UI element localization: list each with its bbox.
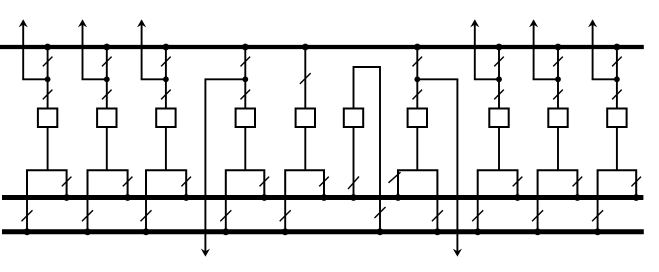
node tap on bus B2, bay 2 <box>124 194 131 201</box>
wire bay 1: bus B2 through to bus B3 <box>26 198 28 232</box>
disconnect switch DS8a <box>494 57 504 67</box>
disconnect switch DS4b <box>241 90 251 100</box>
disconnect switch DS7b <box>413 90 423 100</box>
node tap on bus B2, bay 8 <box>514 194 521 201</box>
node tap on bus B2, bay 4 <box>261 194 268 201</box>
feeder arrow F4 (load line, down arrow crossing buses) <box>201 79 210 256</box>
wire bay 7: bus B1 down to node N7 <box>416 47 418 79</box>
bus B3 (bottom busbar) <box>2 229 644 234</box>
wire jog feeder F9 to node N9 <box>533 78 558 80</box>
switch SW8 on transformer T8 right side <box>513 177 523 187</box>
circuit breaker CB4 (square) <box>236 109 255 128</box>
disconnect switch DS1c (between buses) <box>22 210 33 221</box>
node tap on bus B1, bay 8 <box>496 44 503 51</box>
feeder arrow F7 (load line, down arrow crossing buses) <box>453 79 462 256</box>
disconnect switch DS4a <box>241 57 251 67</box>
circuit breaker CB6 (square) <box>344 109 363 128</box>
switch SW9 on transformer T9 right side <box>573 177 583 187</box>
wire bay 9: node N9 down to breaker <box>557 79 559 108</box>
disconnect switch DS2b <box>102 90 112 100</box>
disconnect switch DS3b <box>161 90 171 100</box>
wire bay 8: breaker CB8 to transformer T8 <box>498 127 500 170</box>
disconnect switch DS3a <box>161 57 171 67</box>
disconnect switch DS2c (between buses) <box>82 210 93 221</box>
wire bay 2: node N2 down to breaker <box>106 79 108 108</box>
node tap on bus B1, bay 5 <box>302 44 309 51</box>
circuit breaker CB8 (square) <box>489 109 508 128</box>
node tap on bus B3, bay 10 <box>594 228 601 235</box>
wire bay 4: node N4 down to breaker <box>244 79 246 108</box>
wire jog node N4 to feeder F4 <box>205 78 247 80</box>
transformer T5 (rectangle onto bus B2) <box>285 170 324 197</box>
wire bay 9: bus B1 down to node N9 <box>557 47 559 79</box>
transformer T10 (rectangle onto bus B2) <box>598 170 637 197</box>
node tap on bus B1, bay 2 <box>103 44 110 51</box>
disconnect switch DS10a <box>612 57 622 67</box>
node tap on bus B1, bay 3 <box>163 44 170 51</box>
wire bay 2: breaker CB2 to transformer T2 <box>106 127 108 170</box>
wire bay 3: node N3 down to breaker <box>165 79 167 108</box>
wire bay 7: breaker CB7 to transformer T7 <box>416 127 418 170</box>
disconnect switch DS9b <box>553 90 563 100</box>
circuit breaker CB7 (square) <box>408 109 427 128</box>
wire bay 3: bus B1 down to node N3 <box>165 47 167 79</box>
transformer T1 (rectangle onto bus B2) <box>27 170 67 197</box>
circuit breaker CB1 (square) <box>38 109 57 128</box>
wire tie bay 6: breaker CB6 up and over to right leg <box>354 67 381 232</box>
disconnect switch DS5a <box>300 73 311 84</box>
node tap on bus B2, bay 7 <box>395 194 402 201</box>
node tap on bus B3, bay 5 <box>282 228 289 235</box>
transformer T2 (rectangle onto bus B2) <box>88 170 128 197</box>
node N9 (junction dot) <box>555 76 561 82</box>
node tap on bus B3, bay 2 <box>84 228 91 235</box>
disconnect switch DS2a <box>102 57 112 67</box>
wire bay 2: bus B2 through to bus B3 <box>87 198 89 232</box>
feeder arrow F2 (source line, up arrow) <box>78 19 87 79</box>
bus B2 (middle busbar) <box>2 195 643 200</box>
disconnect switch DS1a <box>43 57 53 67</box>
node N8 (junction dot) <box>496 76 502 82</box>
node tap on bus B2, tie bay 6 <box>350 194 357 201</box>
wire bay 1: breaker CB1 to transformer T1 <box>47 127 49 170</box>
feeder arrow F3 (source line, up arrow) <box>137 19 146 79</box>
circuit breaker CB3 (square) <box>156 109 175 128</box>
wire bay 10: node N10 down to breaker <box>616 79 618 108</box>
disconnect switch DS8c (between buses) <box>472 210 483 221</box>
node tap on bus B1, bay 7 <box>414 44 421 51</box>
wire bay 1: bus B1 down to node N1 <box>47 47 49 79</box>
wire bay 5: bus B1 down to breaker <box>304 47 306 109</box>
wire jog feeder F1 to node N1 <box>22 78 47 80</box>
circuit breaker CB5 (square) <box>296 109 315 128</box>
node tap on bus B1, bay 9 <box>555 44 562 51</box>
switch SW5 on transformer T5 right side <box>319 177 329 187</box>
node tap on bus B1, bay 4 <box>242 44 249 51</box>
disconnect switch DS7a <box>413 57 423 67</box>
disconnect switch DS7c (between buses) <box>432 210 443 221</box>
disconnect switch DS1b <box>43 90 53 100</box>
disconnect switch DS9a <box>553 57 563 67</box>
wire bay 9: bus B2 through to bus B3 <box>537 198 539 232</box>
wire bay 7: node N7 down to breaker <box>416 79 418 108</box>
node N4 (junction dot) <box>242 76 248 82</box>
circuit breaker CB9 (square) <box>548 109 567 128</box>
wire bay 8: bus B2 through to bus B3 <box>477 198 479 232</box>
wire bay 4: bus B1 down to node N4 <box>244 47 246 79</box>
wire bay 10: bus B1 down to node N10 <box>616 47 618 79</box>
wire bay 1: node N1 down to breaker <box>47 79 49 108</box>
node N2 (junction dot) <box>104 76 110 82</box>
switch SW10 on transformer T10 right side <box>631 177 641 187</box>
node tap on bus B2, bay 3 <box>183 194 190 201</box>
switch SW2 on transformer T2 right side <box>123 177 133 187</box>
disconnect switch DS4c (between buses) <box>220 210 231 221</box>
transformer T3 (rectangle onto bus B2) <box>146 170 186 197</box>
node tap on bus B3, bay 1 <box>24 228 31 235</box>
bus B1 (top HV busbar) <box>0 45 644 49</box>
wire bay 8: bus B1 down to node N8 <box>498 47 500 79</box>
node N1 (junction dot) <box>45 76 51 82</box>
node N7 (junction dot) <box>414 76 420 82</box>
wire bay 8: node N8 down to breaker <box>498 79 500 108</box>
transformer T7 (rectangle onto bus B2) <box>398 170 437 197</box>
wire bay 4: breaker CB4 to transformer T4 <box>244 127 246 170</box>
node N3 (junction dot) <box>163 76 169 82</box>
transformer T9 (rectangle onto bus B2) <box>538 170 578 197</box>
wire jog node N7 to feeder F7 <box>416 78 458 80</box>
wire bay 3: bus B2 through to bus B3 <box>145 198 147 232</box>
disconnect switch DS8b <box>494 90 504 100</box>
wire bay 10: breaker CB10 to transformer T10 <box>616 127 618 170</box>
wire jog feeder F8 to node N8 <box>474 78 499 80</box>
wire bay 3: breaker CB3 to transformer T3 <box>165 127 167 170</box>
node tap on bus B2, bay 5 <box>321 194 328 201</box>
wire bay 5: bus B2 through to bus B3 <box>284 198 286 232</box>
disconnect switch DS6b (between buses) <box>375 207 386 218</box>
wire bay 4: bus B2 through to bus B3 <box>225 198 227 232</box>
node tap on bus B2, bay 10 <box>633 194 640 201</box>
transformer T8 (rectangle onto bus B2) <box>478 170 518 197</box>
wire jog feeder F2 to node N2 <box>82 78 107 80</box>
wire bay 7: bus B2 through to bus B3 <box>436 198 438 232</box>
wire bay 10: bus B2 through to bus B3 <box>597 198 599 232</box>
disconnect switch DS6a <box>348 177 359 190</box>
feeder arrow F10 (source line, up arrow) <box>588 19 597 79</box>
disconnect switch DS3c (between buses) <box>141 210 152 221</box>
node tap on bus B3, bay 9 <box>534 228 541 235</box>
node N10 (junction dot) <box>614 76 620 82</box>
switch SW1 on transformer T1 right side <box>62 177 72 187</box>
disconnect switch DS10b <box>612 90 622 100</box>
node tap on bus B1, bay 10 <box>614 44 621 51</box>
wire jog feeder F3 to node N3 <box>141 78 166 80</box>
disconnect switch DS5c (between buses) <box>280 210 291 221</box>
wire bay 9: breaker CB9 to transformer T9 <box>557 127 559 170</box>
disconnect switch DS10c (between buses) <box>592 210 603 221</box>
node tap on bus B3, bay 7 <box>434 228 441 235</box>
switch SW7 on transformer T7 left side <box>389 172 401 183</box>
wire jog feeder F10 to node N10 <box>592 78 617 80</box>
transformer T4 (rectangle onto bus B2) <box>226 170 264 197</box>
feeder arrow F8 (source line, up arrow) <box>470 19 479 79</box>
switch SW4 on transformer T4 right side <box>260 177 270 187</box>
disconnect switch DS9c (between buses) <box>532 210 543 221</box>
node tap on bus B3, bay 4 <box>222 228 229 235</box>
circuit breaker CB10 (square) <box>607 109 626 128</box>
wire tie bay 6: bus B2 up to breaker CB6 <box>353 127 355 198</box>
wire bay 5: breaker CB5 to transformer T5 <box>304 127 306 170</box>
feeder arrow F9 (source line, up arrow) <box>529 19 538 79</box>
node tap on bus B3, bay 3 <box>143 228 150 235</box>
circuit breaker CB2 (square) <box>97 109 116 128</box>
node tap on bus B2, bay 1 <box>63 194 70 201</box>
wire bay 2: bus B1 down to node N2 <box>106 47 108 79</box>
node tap on bus B3, tie bay 6 <box>377 228 384 235</box>
switch SW3 on transformer T3 right side <box>181 177 191 187</box>
node tap on bus B1, bay 1 <box>44 44 51 51</box>
node tap on bus B2, bay 9 <box>574 194 581 201</box>
node tap on bus B3, bay 8 <box>474 228 481 235</box>
feeder arrow F1 (source line, up arrow) <box>19 19 28 79</box>
